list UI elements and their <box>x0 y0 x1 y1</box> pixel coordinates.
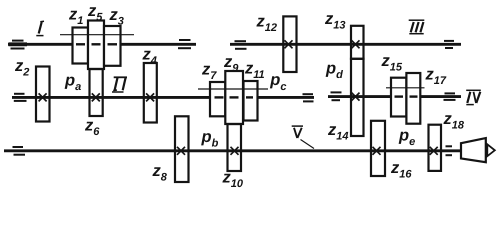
hub line block II <box>198 88 268 90</box>
fixed mark z14 <box>352 93 360 101</box>
shaft dash in z9 <box>230 96 239 98</box>
gear z16 <box>371 121 385 176</box>
gear z11 <box>244 81 258 121</box>
leader shaft V <box>301 140 315 149</box>
bearing shaft IV right <box>444 93 456 100</box>
cone tip <box>487 144 495 156</box>
bearing shaft V left <box>13 147 26 155</box>
hub line block I <box>60 34 134 36</box>
shaft dash in z15 <box>395 95 404 97</box>
shaft I left end stub <box>9 42 28 46</box>
gear z1 <box>73 28 89 64</box>
shaft I <box>8 43 196 46</box>
label shaft V <box>292 126 303 138</box>
bearing shaft III right <box>444 41 454 48</box>
fixed mark z18 <box>430 147 438 155</box>
fixed mark z16 <box>373 147 381 155</box>
label shaft I <box>36 21 44 35</box>
gear z3 <box>104 26 121 66</box>
gear z17 <box>406 73 420 124</box>
gear z7 <box>210 82 225 116</box>
gear z6 <box>90 69 103 116</box>
shaft dash in z5 <box>92 43 101 45</box>
label shaft III <box>409 20 425 34</box>
shaft dash in z11 <box>246 96 253 98</box>
gear z14 <box>351 59 364 136</box>
gear z18 <box>429 125 442 171</box>
bearing shaft IV left <box>331 92 342 100</box>
gear z5 <box>88 21 104 70</box>
shaft IV <box>328 95 461 98</box>
shaft dash in z3 <box>108 43 118 45</box>
fixed mark z6 <box>92 93 100 101</box>
gear z13 <box>351 26 364 59</box>
bearing shaft II left <box>14 94 27 101</box>
label shaft IV <box>466 90 481 104</box>
fixed mark z10 <box>231 147 239 155</box>
fixed mark z12 <box>285 40 293 48</box>
cone body <box>461 138 486 162</box>
bearing shaft V right <box>446 146 453 155</box>
shaft dash in z7 <box>215 96 224 98</box>
gear z2 <box>36 67 50 122</box>
gear z9 <box>225 71 243 124</box>
shaft dash in z17 <box>410 95 418 97</box>
gear z12 <box>283 16 296 72</box>
label shaft II <box>112 77 127 92</box>
fixed mark z13 <box>352 40 360 48</box>
fixed mark z4 <box>146 93 154 101</box>
gear z15 <box>391 78 406 117</box>
bearing shaft III left <box>235 41 247 49</box>
shaft III <box>230 43 461 46</box>
bearing shaft II right <box>303 94 314 101</box>
fixed mark z8 <box>177 147 185 155</box>
gear z8 <box>175 116 189 182</box>
shaft II <box>12 96 314 99</box>
hub line block IV <box>386 87 425 89</box>
bearing shaft I left <box>11 41 25 49</box>
shaft V <box>4 149 462 152</box>
gear z10 <box>228 124 242 171</box>
bearing shaft I right <box>178 40 191 48</box>
fixed mark z2 <box>39 93 47 101</box>
shaft dash in z1 <box>76 43 85 45</box>
gear z4 <box>144 63 157 123</box>
